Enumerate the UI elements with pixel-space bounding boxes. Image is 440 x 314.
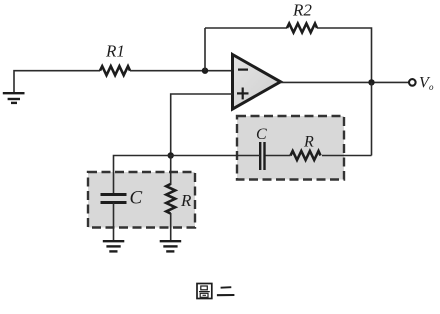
resistor R (series RC) [291, 151, 321, 160]
resistor R (parallel RC) [166, 184, 175, 214]
wire: op-amp output to terminal [281, 81, 410, 83]
capacitor C (series RC) [260, 142, 264, 170]
op-amp U1 [233, 55, 281, 110]
wire: junction down to parallel R [170, 156, 172, 186]
node: output junction [368, 79, 374, 85]
svg-text:R2: R2 [292, 1, 312, 20]
wire: R1 to inverting input [130, 70, 233, 72]
svg-text:C: C [256, 126, 267, 143]
ground (under parallel C) [103, 241, 125, 251]
svg-text:o: o [429, 82, 434, 92]
wire: non-inverting input down to junction [171, 94, 233, 156]
node: non-inverting junction [168, 152, 174, 158]
wire: parallel C down to ground [113, 203, 115, 242]
svg-text:R: R [303, 134, 314, 151]
feedback RC box (series C and R) [237, 116, 344, 180]
wire: between series C and R [265, 155, 291, 157]
caption 圖二 (Figure 2) [197, 284, 212, 299]
wire: output junction down to series RC [371, 82, 373, 155]
capacitor C (parallel RC) [101, 195, 127, 203]
grounded RC box (parallel C and R) [88, 172, 195, 228]
wire: top feedback left segment [205, 27, 287, 29]
wire: top feedback right segment down to output [317, 28, 372, 82]
resistor R2 [287, 24, 317, 33]
ground (under parallel R) [160, 241, 182, 251]
ground (left input) [3, 93, 25, 103]
terminal Vo [409, 79, 416, 86]
wire: series RC right segment [322, 155, 372, 157]
resistor R1 [100, 66, 130, 75]
node: inverting input junction [202, 68, 208, 74]
svg-text:C: C [130, 188, 143, 209]
wire: junction up to feedback [204, 28, 206, 71]
wire: parallel R down to ground [170, 213, 172, 241]
wire: left ground to R1 [14, 71, 100, 93]
wire: series C left to parallel section and down to parallel C [114, 156, 261, 195]
svg-text:R1: R1 [105, 42, 125, 61]
svg-text:R: R [180, 191, 192, 210]
